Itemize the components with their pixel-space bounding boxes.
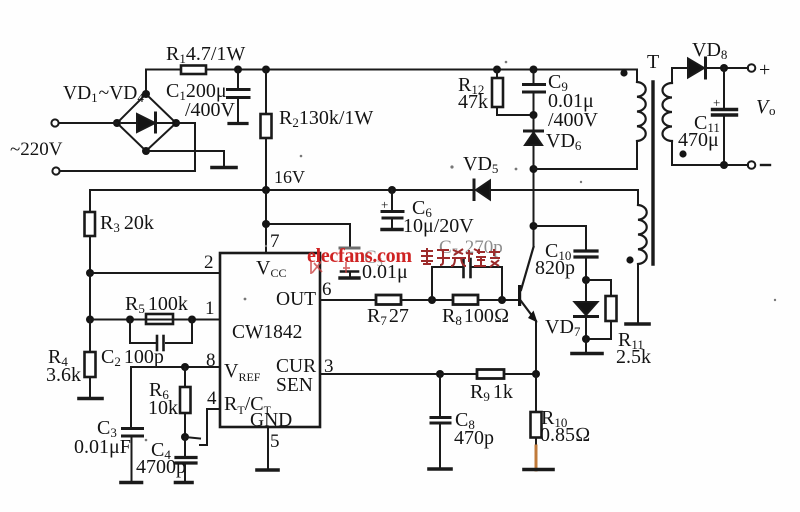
pin 8 — [206, 350, 216, 371]
pin 2 — [204, 252, 214, 273]
svg-text:OUT: OUT — [276, 289, 316, 310]
wire pin5 ground — [267, 427, 269, 468]
node collector-C10 — [530, 222, 538, 230]
wire AC input bottom — [60, 123, 195, 171]
wire 16V bus — [90, 189, 638, 191]
svg-text:2.5k: 2.5k — [616, 346, 651, 368]
svg-text:VREF: VREF — [224, 360, 261, 384]
label VD7 — [545, 316, 581, 339]
svg-text:VD7: VD7 — [545, 316, 581, 339]
wire VD8 to plus terminal — [707, 67, 748, 69]
svg-text:VD6: VD6 — [546, 130, 582, 153]
capacitor C10 — [575, 251, 597, 280]
node rail-R2 — [262, 66, 270, 74]
node A (rail-C1) — [234, 66, 242, 74]
label R4 3.6k — [46, 346, 81, 386]
node R3-pin2 — [86, 269, 94, 277]
ground at C4 — [176, 481, 193, 485]
ground at VD7 — [572, 352, 602, 356]
label C10 820p — [535, 240, 575, 279]
watermark red fragments — [311, 261, 350, 274]
label C8 470p — [454, 409, 494, 449]
scan specks — [145, 61, 777, 442]
wire pin8 — [131, 367, 220, 427]
ground at R4 — [79, 397, 102, 401]
label VD6 — [546, 130, 582, 153]
wire top rail from bridge to transformer primary — [146, 70, 637, 95]
diode VD8 — [688, 58, 706, 78]
svg-text:GND: GND — [250, 410, 292, 431]
label Vo — [756, 96, 776, 118]
wire secondary bottom — [672, 164, 748, 166]
capacitor C5 — [340, 248, 359, 276]
svg-text:~220V: ~220V — [10, 139, 63, 160]
watermark chinese characters — [421, 248, 500, 267]
wire bridge bottom to ground — [146, 151, 224, 166]
node bridge top — [142, 90, 150, 98]
svg-text:4700p: 4700p — [136, 456, 186, 478]
svg-text:10k: 10k — [148, 397, 178, 419]
pin 3 — [324, 356, 334, 377]
ground at pin5 — [257, 468, 278, 472]
wire primary bottom — [534, 141, 638, 169]
node VD7 bottom — [582, 335, 590, 343]
terminal minus — [748, 161, 756, 169]
ground at bridge — [212, 166, 236, 170]
label R3 20k — [100, 212, 154, 235]
svg-text:R320k: R320k — [100, 212, 154, 235]
capacitor C3 — [123, 429, 143, 482]
label R11 2.5k — [616, 329, 651, 368]
label C9 0.01u /400V — [548, 71, 599, 131]
wire emitter down — [535, 321, 537, 374]
svg-text:VD1~VD4: VD1~VD4 — [63, 83, 144, 105]
label ~220V — [10, 139, 63, 160]
node C2 left — [126, 316, 134, 324]
svg-text:elecfans.com: elecfans.com — [307, 245, 412, 267]
node 16V bus C6 — [388, 186, 396, 194]
wire secondary top to VD8 — [672, 67, 688, 69]
label R5 100k — [125, 293, 188, 316]
wire R7-R8 — [401, 299, 453, 301]
wire 16V bus corner to feedback winding — [637, 190, 639, 205]
svg-text:R8100Ω: R8100Ω — [442, 305, 509, 328]
wire pin2 — [90, 273, 220, 320]
svg-text:4: 4 — [207, 388, 217, 409]
label R10 0.85ohm — [540, 407, 590, 446]
svg-text:0.01μF: 0.01μF — [74, 436, 131, 458]
svg-text:5: 5 — [270, 431, 280, 452]
svg-text:7: 7 — [270, 231, 280, 252]
pin 4 — [207, 388, 217, 409]
svg-text:10μ/20V: 10μ/20V — [403, 215, 474, 237]
pin 7 — [270, 231, 280, 252]
svg-text:0.85Ω: 0.85Ω — [540, 424, 590, 446]
node left pin1 — [86, 316, 94, 324]
node pin7 branch — [262, 220, 270, 228]
node VD7 top — [582, 276, 590, 284]
label GND — [250, 410, 292, 431]
svg-text:+: + — [381, 197, 388, 212]
label R6 10k — [148, 379, 178, 419]
node feedback phase dot — [626, 256, 633, 263]
label RT/CT — [224, 393, 272, 417]
svg-text:3: 3 — [324, 356, 334, 377]
label R12 47k — [458, 74, 488, 113]
capacitor C4 — [176, 437, 196, 481]
ground at C6 — [382, 228, 402, 231]
node primary phase dot — [620, 69, 627, 76]
resistor R1 — [181, 66, 206, 75]
node C9-VD6 — [530, 111, 538, 119]
resistor R9 — [477, 370, 504, 379]
node C8 — [436, 370, 444, 378]
svg-text:3.6k: 3.6k — [46, 364, 81, 386]
terminal AC bottom — [52, 167, 59, 174]
node C7 left — [428, 296, 436, 304]
label C4 4700p — [136, 439, 186, 478]
label VD8 — [692, 39, 727, 62]
ground at C5 — [340, 276, 359, 279]
label 16V — [274, 167, 305, 187]
label C7 270p (faded) — [439, 237, 503, 259]
resistor R5 — [146, 314, 173, 324]
svg-text:1: 1 — [205, 298, 215, 319]
node R6-C4 — [181, 433, 189, 441]
svg-text:470μ: 470μ — [678, 129, 719, 151]
wire AC input top — [59, 122, 117, 124]
node C7 right — [498, 296, 506, 304]
wire R9 to emitter node — [504, 373, 536, 375]
resistor R12 — [492, 70, 534, 116]
svg-text:2: 2 — [204, 252, 214, 273]
bridge rectifier VD1~VD4 — [117, 94, 176, 151]
svg-text:6: 6 — [322, 279, 332, 300]
label plus — [759, 59, 770, 81]
ground at C8 — [429, 467, 451, 471]
svg-text:T: T — [647, 51, 659, 73]
svg-text:470p: 470p — [454, 427, 494, 449]
svg-text:/400V: /400V — [185, 99, 236, 121]
svg-text:820p: 820p — [535, 257, 575, 279]
wire pin3 — [320, 373, 440, 375]
svg-text:VCC: VCC — [256, 257, 286, 280]
svg-text:+: + — [759, 59, 770, 81]
diode VD5 — [474, 180, 490, 200]
capacitor C7 loop — [432, 259, 502, 300]
svg-text:8: 8 — [206, 350, 216, 371]
resistor R10 — [531, 374, 542, 448]
wire pin7 Vcc — [266, 190, 350, 253]
svg-text:o: o — [769, 103, 776, 118]
label C6 10u/20V — [381, 197, 474, 237]
capacitor C8 — [431, 374, 450, 467]
capacitor C9 — [524, 70, 545, 116]
svg-text:47k: 47k — [458, 91, 488, 113]
svg-text:C2100p: C2100p — [101, 346, 164, 369]
node rail C9 — [530, 66, 538, 74]
label R8 100ohm — [442, 305, 509, 328]
label VREF — [224, 360, 261, 384]
svg-text:/400V: /400V — [548, 109, 599, 131]
terminal plus — [748, 64, 756, 72]
svg-text:VD5: VD5 — [463, 153, 498, 176]
pin 6 — [322, 279, 332, 300]
transistor Q1 — [518, 247, 538, 323]
label R2 130k/1W — [279, 107, 373, 130]
label VD5 — [463, 153, 498, 176]
resistor R2 — [261, 70, 272, 191]
wire R8 to base — [478, 299, 518, 301]
resistor R6 — [180, 367, 191, 437]
node bridge right — [172, 119, 180, 127]
svg-text:CW1842: CW1842 — [232, 322, 302, 343]
resistor R3 — [85, 190, 96, 273]
label C11 470u — [678, 95, 720, 151]
svg-text:VD8: VD8 — [692, 39, 727, 62]
label C5 0.01u — [364, 247, 383, 269]
pin 1 — [205, 298, 215, 319]
resistor R4 — [85, 320, 96, 398]
transformer core — [651, 82, 654, 264]
wire VD7 to ground — [585, 339, 587, 352]
svg-text:16V: 16V — [274, 167, 305, 187]
wire pin6 OUT — [320, 299, 376, 301]
wire pin4 — [200, 409, 220, 445]
wire C10 branch — [534, 226, 587, 250]
node 16V — [262, 186, 270, 194]
label C3 0.01uF — [74, 417, 131, 458]
label OUT — [276, 289, 316, 310]
wire stub from node toward pin4 hook — [185, 437, 200, 439]
svg-text:+: + — [713, 95, 720, 110]
node primary bottom — [530, 165, 538, 173]
node bridge bottom — [142, 147, 150, 155]
capacitor C6 — [382, 190, 403, 228]
node output plus — [720, 64, 728, 72]
wire collector up — [533, 226, 535, 247]
label C1 200u /400V — [166, 80, 236, 121]
svg-text:R91k: R91k — [470, 381, 513, 404]
label R9 1k — [470, 381, 513, 404]
node output minus junction — [720, 161, 728, 169]
label CW1842 — [232, 322, 302, 343]
resistor R8 — [453, 295, 478, 305]
node C2 right — [188, 316, 196, 324]
label VCC — [256, 257, 286, 280]
diode VD7 — [575, 280, 598, 339]
label R1 4.7/1W — [166, 43, 245, 66]
ground at feedback winding — [626, 322, 649, 326]
svg-text:R5100k: R5100k — [125, 293, 188, 316]
wire C8 node to R9 — [440, 373, 477, 375]
node bridge left — [113, 119, 121, 127]
svg-text:R2130k/1W: R2130k/1W — [279, 107, 373, 130]
node secondary phase dot — [679, 150, 686, 157]
label minus — [761, 164, 770, 166]
capacitor C1 — [228, 70, 250, 124]
resistor R7 — [376, 295, 401, 305]
diode VD6 — [525, 115, 543, 169]
watermark elecfans.com — [307, 245, 412, 267]
capacitor C11 — [713, 68, 737, 165]
svg-text:R727: R727 — [367, 305, 409, 328]
node rail R12 — [493, 66, 501, 74]
label R7 27 — [367, 305, 409, 328]
label C2 100p — [101, 346, 164, 369]
pin 5 — [270, 431, 280, 452]
node pin8-R6 — [181, 363, 189, 371]
label T — [647, 51, 659, 73]
op-amp U1 CW1842 box — [220, 253, 320, 427]
wire collector node to VD6 node — [533, 169, 535, 226]
capacitor C2 — [130, 320, 192, 351]
transformer feedback winding — [638, 205, 647, 322]
wire pin1 — [90, 319, 220, 321]
transformer secondary winding — [663, 68, 673, 165]
svg-text:SEN: SEN — [276, 375, 313, 396]
svg-text:R14.7/1W: R14.7/1W — [166, 43, 245, 66]
label VD1 ~ VD4 — [63, 83, 144, 105]
wire R10 lower lead (faded orange scan artifact) — [535, 446, 538, 470]
ground at C3 — [121, 481, 142, 485]
node emitter-R10 — [532, 370, 540, 378]
resistor R11 — [586, 280, 617, 339]
ground at R10 — [524, 468, 553, 472]
transformer T primary winding — [637, 82, 646, 141]
terminal AC top — [51, 119, 58, 126]
label CUR SEN — [276, 356, 316, 396]
